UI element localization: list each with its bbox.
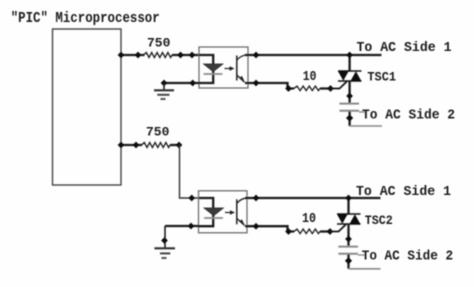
optocoupler U3 LED cathode bar (204, 217, 223, 219)
junction (133, 142, 139, 148)
junction (286, 229, 292, 235)
wire gate lead to TSC2 (330, 224, 346, 231)
resistor R4 10 (294, 229, 330, 234)
label To AC Side 2 (bottom) (362, 249, 454, 265)
label "PIC" Microprocessor (11, 11, 160, 27)
optocoupler U2 LED cathode bar (204, 73, 223, 75)
junction (253, 223, 259, 229)
resistor R1 750 (144, 53, 200, 58)
junction (286, 86, 292, 92)
junction above ground (162, 238, 168, 244)
wire U2 cathode to ground (164, 82, 199, 84)
wire from U1 pin to resistor R1 (121, 54, 145, 56)
label 750 (R1 value) (147, 35, 170, 50)
wire from U1 pin 2 to resistor R3 (121, 144, 142, 146)
wire U2 collector to AC side 1 (245, 54, 382, 56)
junction at U1 output 2 (118, 142, 124, 148)
svg-text:To AC Side 1: To AC Side 1 (357, 40, 452, 56)
triac TSC2 (337, 198, 361, 246)
wire down to ground (bottom channel) (164, 226, 166, 248)
junction (347, 115, 353, 121)
junction (253, 80, 259, 86)
capacitor plates (AC side 2 terminal, top channel) (339, 104, 359, 111)
optocoupler U2 box (199, 47, 248, 88)
junction (188, 223, 194, 229)
wire to AC side 2 (top channel) (350, 112, 382, 127)
svg-text:TSC2: TSC2 (365, 213, 393, 228)
tick to label (358, 254, 365, 256)
svg-text:TSC1: TSC1 (367, 69, 396, 84)
junction (189, 52, 195, 58)
junction (178, 52, 184, 58)
optocoupler U2 coupling arrow (225, 66, 235, 70)
optocoupler U3 LED anode/cathode wire (199, 198, 213, 226)
junction at TSC2 anode (346, 195, 352, 201)
junction (190, 80, 196, 86)
label TSC1 (367, 69, 396, 84)
wire feed down to optocoupler U3 (180, 145, 200, 198)
junction (253, 52, 259, 58)
triac TSC1 (338, 55, 362, 103)
ground (top channel) (154, 83, 174, 99)
optocoupler U3 box (199, 191, 248, 233)
resistor R3 750 (142, 143, 180, 148)
junction (176, 142, 182, 148)
optocoupler U3 LED triangle (204, 208, 224, 216)
junction (346, 258, 352, 264)
junction below TSC1 (347, 93, 353, 99)
svg-text:To AC Side 2: To AC Side 2 (362, 107, 455, 123)
junction (redrawn on top) (347, 115, 353, 121)
svg-text:10: 10 (303, 70, 317, 85)
junction below TSC2 (346, 236, 352, 242)
label To AC Side 1 (bottom) (356, 184, 451, 200)
label To AC Side 1 (top) (357, 40, 452, 56)
wire U3 emitter to resistor R4 (245, 226, 294, 231)
junction (189, 195, 195, 201)
label 750 (R3 value) (146, 124, 169, 139)
optocoupler U2 phototransistor (237, 55, 246, 82)
junction (253, 195, 259, 201)
svg-text:750: 750 (147, 35, 170, 50)
label 10 (R4 value) (302, 212, 316, 227)
svg-text:To AC Side 1: To AC Side 1 (356, 184, 451, 200)
tick to label (359, 111, 366, 113)
label TSC2 (365, 213, 393, 228)
wire U2 emitter to resistor R2 (245, 83, 294, 89)
svg-text:"PIC" Microprocessor: "PIC" Microprocessor (11, 11, 160, 27)
junction at TSC1 anode (347, 52, 353, 58)
wire U3 collector to AC side 1 (245, 197, 381, 199)
capacitor plates (AC side 2 terminal, bottom channel) (338, 247, 358, 254)
IC U1 "PIC" microprocessor box (53, 29, 122, 185)
label To AC Side 2 (top) (362, 107, 455, 123)
optocoupler U3 phototransistor (237, 198, 246, 225)
resistor R2 10 (294, 86, 331, 91)
junction (327, 229, 333, 235)
optocoupler U2 LED triangle (203, 64, 223, 72)
junction (redrawn on top) (346, 258, 352, 264)
wire to AC side 2 (bottom channel) (349, 255, 381, 269)
optocoupler U2 LED anode/cathode wire (199, 55, 213, 83)
junction at U1 output 1 (118, 52, 124, 58)
junction (328, 86, 334, 92)
optocoupler U3 coupling arrow (225, 210, 235, 214)
ground (bottom channel) (154, 248, 175, 258)
svg-text:To AC Side 2: To AC Side 2 (362, 249, 454, 265)
wire gate lead to TSC1 (331, 81, 348, 88)
label 10 (R2 value) (303, 70, 317, 85)
svg-text:10: 10 (302, 212, 316, 227)
svg-text:750: 750 (146, 124, 169, 139)
junction at ground stub (161, 80, 167, 86)
junction (135, 52, 141, 58)
wire U3 cathode to ground (165, 225, 199, 227)
